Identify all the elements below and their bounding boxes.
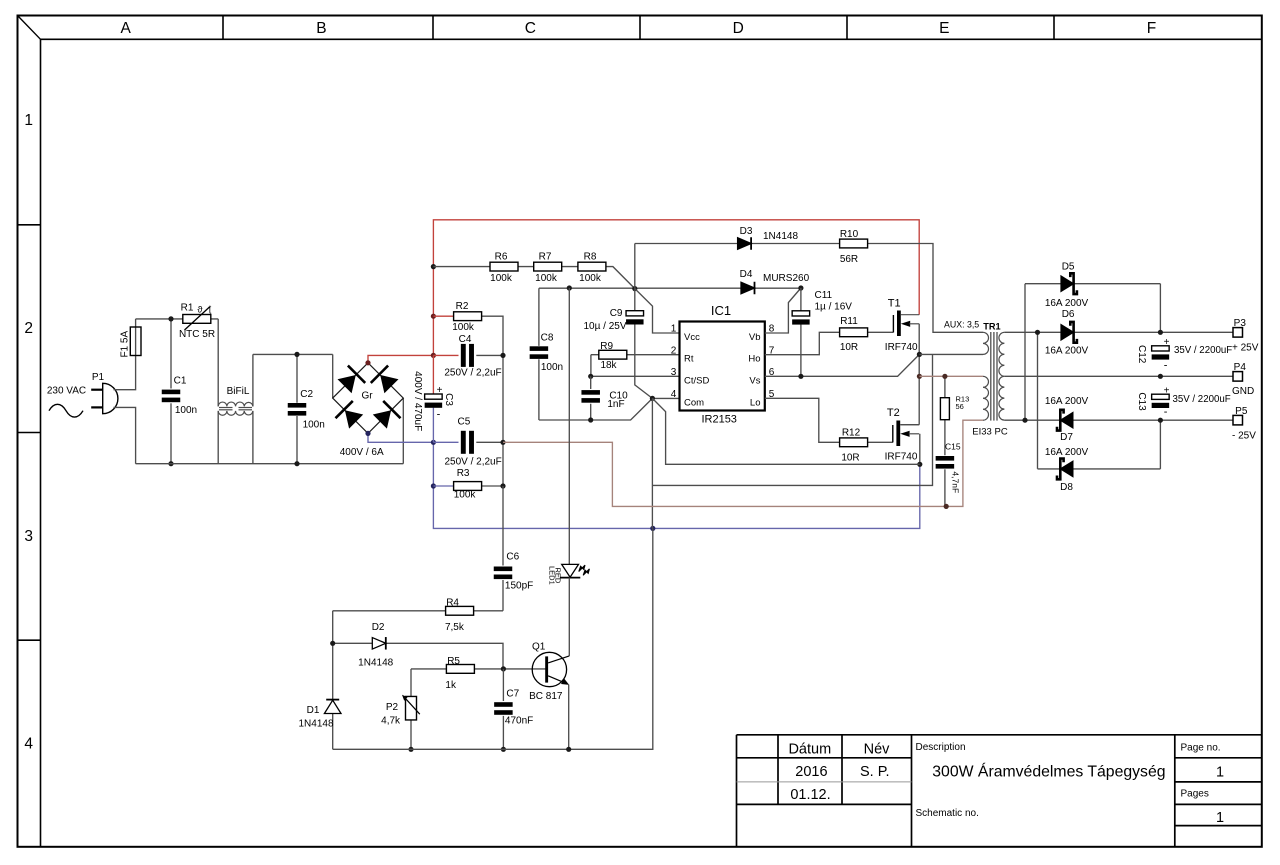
wire LED cathode to Q1 collector [568, 578, 570, 656]
junction D4 cathode / C11 [798, 285, 803, 290]
title block table [737, 735, 1262, 847]
svg-text:100k: 100k [535, 273, 558, 284]
svg-text:1N4148: 1N4148 [298, 718, 333, 729]
capacitor C3 [425, 394, 443, 408]
transformer TR1 secondary winding [999, 332, 1004, 420]
wire pin4 Com stub [652, 397, 679, 399]
capacitor C11 [792, 311, 810, 325]
wire D8 right vertical [1159, 420, 1161, 469]
frame column divider x=847 [846, 16, 848, 40]
svg-text:C11: C11 [815, 290, 833, 301]
svg-text:R7: R7 [539, 251, 552, 262]
capacitor C2 [288, 403, 307, 416]
capacitor C15 [936, 456, 955, 469]
wire pin7 Ho to R11 to T1 gate [765, 332, 894, 354]
diode D6 [1061, 322, 1077, 343]
wire C5 right lead [476, 441, 503, 443]
svg-text:R1: R1 [181, 302, 194, 313]
svg-text:56: 56 [956, 402, 964, 411]
svg-text:IRF740: IRF740 [885, 451, 918, 462]
transistor T2 IRF740 [893, 421, 919, 447]
connector P5 pad [1233, 415, 1243, 425]
wire pin5 Lo to R12 to T2 gate [765, 398, 893, 442]
op-amp IC1 box [680, 322, 765, 411]
inductor BiFiL windings [218, 402, 253, 415]
svg-text:R3: R3 [457, 468, 470, 479]
resistor R7 body [534, 262, 562, 271]
resistor R4 body [446, 606, 474, 615]
svg-text:250V / 2,2uF: 250V / 2,2uF [444, 368, 501, 379]
svg-text:D2: D2 [372, 622, 385, 633]
svg-text:3: 3 [24, 528, 33, 545]
svg-text:R10: R10 [840, 229, 859, 240]
svg-text:1µ / 16V: 1µ / 16V [815, 302, 853, 313]
junction secondary top / D8 [1035, 330, 1040, 335]
frame column divider x=1054 [1053, 16, 1055, 40]
svg-text:BC 817: BC 817 [529, 691, 563, 702]
svg-text:C6: C6 [506, 552, 519, 563]
junction C4 right [500, 353, 505, 358]
svg-text:P4: P4 [1234, 362, 1247, 373]
wire R5 line to Q1 base [411, 668, 546, 670]
svg-text:16A 200V: 16A 200V [1045, 298, 1089, 309]
wire C7 leads [502, 669, 504, 749]
junction R3 right [500, 483, 505, 488]
frame corner diagonal [18, 16, 41, 40]
capacitor C4 [461, 344, 474, 367]
transformer TR1 aux winding [983, 332, 989, 354]
frame inner left line [40, 39, 42, 847]
wire R1 right lead down to BiFiL [217, 319, 219, 407]
junction secondary bottom / D5 [1022, 418, 1027, 423]
svg-text:AUX: 3,5: AUX: 3,5 [944, 320, 979, 330]
resistor R6 body [490, 262, 518, 271]
wire secondary center tap GND to P4 [1004, 375, 1233, 377]
wire bottom AC rail [136, 463, 404, 465]
svg-text:S. P.: S. P. [860, 764, 890, 780]
svg-text:P5: P5 [1235, 406, 1248, 417]
svg-text:+: + [1164, 337, 1170, 348]
junction D2 anode [330, 641, 335, 646]
wire plug bottom pin down to bottom rail [114, 407, 136, 463]
wire D3 anode vertical through Vcc node [634, 244, 636, 311]
svg-text:D3: D3 [740, 226, 753, 237]
wire D8 line [1038, 468, 1161, 470]
svg-text:C1: C1 [174, 375, 187, 386]
svg-text:300W Áramvédelmes Tápegység: 300W Áramvédelmes Tápegység [932, 761, 1165, 780]
svg-text:P2: P2 [386, 702, 399, 713]
svg-text:Vs: Vs [749, 375, 760, 386]
junction GND output rail [1158, 374, 1163, 379]
svg-text:1k: 1k [445, 680, 457, 691]
wire maroon primary return to C4/C5 midpoint [503, 420, 983, 506]
resistor R10 body [840, 239, 868, 248]
junction R13 top [942, 374, 947, 379]
resistor R9 body [599, 350, 627, 359]
diode D7 [1057, 410, 1073, 431]
junction C2 bottom [294, 461, 299, 466]
wire P2 top lead [410, 669, 412, 696]
junction C5 right [500, 440, 505, 445]
svg-text:Com: Com [684, 397, 704, 408]
wire bridge left vertex up [332, 354, 334, 398]
svg-text:C8: C8 [541, 332, 554, 343]
svg-text:2016: 2016 [795, 764, 827, 780]
svg-text:4: 4 [24, 736, 33, 753]
junction C1 bottom [168, 461, 173, 466]
wire C10 leads [590, 376, 592, 420]
junction T1 source / aux / Vs [917, 352, 922, 357]
resistor R5 body [446, 665, 474, 674]
transistor Q1 BC817 [532, 652, 569, 686]
wire C5 left lead (blue) [433, 441, 458, 443]
resistor R2 body [454, 312, 482, 321]
wire P2 bottom lead [410, 720, 412, 749]
junction C10 bottom [588, 417, 593, 422]
junction C2 top [294, 352, 299, 357]
svg-text:7,5k: 7,5k [445, 622, 465, 633]
svg-text:Pages: Pages [1181, 788, 1209, 799]
wire D5 line [1025, 283, 1160, 285]
junction red bus at R6 rail [431, 264, 436, 269]
svg-text:Vcc: Vcc [684, 332, 700, 343]
svg-text:3: 3 [671, 367, 677, 378]
svg-text:100k: 100k [579, 273, 602, 284]
capacitor C8 [530, 346, 549, 359]
wire T1 source vertical to T2 drain [918, 324, 920, 425]
svg-text:MURS260: MURS260 [763, 273, 810, 284]
wire C1 bottom lead [170, 403, 172, 463]
svg-text:16A 200V: 16A 200V [1045, 447, 1089, 458]
svg-text:D: D [733, 20, 744, 37]
svg-text:P1: P1 [92, 372, 105, 383]
wire C15 bottom lead [944, 469, 946, 506]
AC sine symbol [49, 404, 83, 417]
wire R3 left lead (blue) [433, 485, 454, 487]
svg-text:100k: 100k [490, 273, 513, 284]
svg-text:ϑ: ϑ [197, 305, 203, 316]
svg-text:F1 5A: F1 5A [119, 331, 130, 358]
capacitor C1 [162, 390, 181, 403]
wire maroon primary top [919, 375, 983, 377]
svg-text:R6: R6 [495, 251, 508, 262]
wire C1 top lead [170, 319, 172, 389]
svg-text:- 25V: - 25V [1232, 431, 1256, 442]
svg-text:16A 200V: 16A 200V [1045, 396, 1089, 407]
capacitor C12 [1152, 346, 1170, 360]
wire pin6 Vs line [765, 354, 920, 376]
capacitor C9 [626, 311, 644, 325]
wire fuse lead through body [135, 319, 137, 356]
wire BiFiL bottom left lead [217, 411, 219, 464]
svg-text:-: - [437, 408, 441, 420]
junction bridge top (red) [365, 360, 370, 365]
svg-text:100k: 100k [454, 490, 477, 501]
transformer TR1 primary winding [983, 376, 988, 420]
capacitor C10 [581, 390, 600, 403]
svg-text:470nF: 470nF [505, 715, 533, 726]
svg-text:D5: D5 [1062, 261, 1075, 272]
junction T2 source [917, 462, 922, 467]
frame column divider x=640 [639, 16, 641, 40]
svg-text:1N4148: 1N4148 [358, 658, 393, 669]
svg-text:C7: C7 [506, 688, 519, 699]
svg-text:2: 2 [671, 345, 677, 356]
svg-text:250V / 2,2uF: 250V / 2,2uF [444, 456, 501, 467]
diode D5 [1061, 273, 1077, 294]
wire C2 vertical leads [296, 354, 298, 463]
junction R5 / C7 / base [501, 666, 506, 671]
svg-text:1: 1 [24, 112, 33, 129]
diode D8 [1057, 459, 1073, 480]
svg-text:Q1: Q1 [532, 642, 546, 653]
wire red stub bridge top [368, 355, 433, 362]
svg-text:T2: T2 [887, 407, 900, 419]
svg-text:+ 25V: + 25V [1232, 343, 1259, 354]
bridge Gr diamond outline [333, 363, 404, 434]
svg-text:35V / 2200uF: 35V / 2200uF [1174, 345, 1232, 356]
svg-text:10R: 10R [841, 452, 859, 463]
wire C6 bottom lead [502, 580, 504, 611]
wire Com to T2 source line [652, 398, 919, 464]
svg-text:C5: C5 [458, 416, 471, 427]
svg-text:C12: C12 [1136, 345, 1147, 364]
svg-text:2: 2 [24, 320, 33, 337]
svg-text:BiFiL: BiFiL [227, 386, 250, 397]
svg-text:C2: C2 [300, 389, 313, 400]
svg-text:F: F [1147, 20, 1156, 37]
svg-text:GND: GND [1232, 386, 1254, 397]
svg-text:D7: D7 [1060, 432, 1073, 443]
potentiometer P2 body [406, 696, 417, 720]
svg-text:+: + [1164, 385, 1170, 396]
svg-text:C15: C15 [945, 441, 961, 451]
bridge diode upper-left (left to top) [338, 366, 366, 394]
svg-text:C: C [525, 20, 536, 37]
svg-text:10R: 10R [840, 342, 858, 353]
capacitor C5 [461, 431, 474, 454]
fuse F1 body [130, 327, 141, 356]
junction Q1 emitter bottom [566, 747, 571, 752]
svg-text:D4: D4 [740, 269, 753, 280]
svg-text:T1: T1 [888, 297, 901, 309]
svg-text:1: 1 [1216, 765, 1224, 781]
wire D5 right vertical [1159, 284, 1161, 333]
svg-text:B: B [316, 20, 326, 37]
wire C8/C10 ground line diagonal to Com [539, 398, 653, 420]
wire top AC rail [136, 318, 219, 320]
svg-text:NTC 5R: NTC 5R [179, 329, 215, 340]
svg-text:R2: R2 [456, 301, 469, 312]
svg-text:Schematic no.: Schematic no. [916, 808, 979, 819]
svg-text:Név: Név [864, 741, 891, 757]
svg-text:Page no.: Page no. [1181, 743, 1221, 754]
svg-text:D8: D8 [1060, 482, 1073, 493]
wire D2 line [333, 643, 503, 669]
svg-text:IC1: IC1 [711, 303, 731, 318]
svg-text:1N4148: 1N4148 [763, 231, 798, 242]
diode D3 [738, 237, 752, 250]
wire bottom protection rail [333, 528, 653, 749]
svg-text:Vb: Vb [749, 332, 761, 343]
svg-text:1nF: 1nF [607, 399, 624, 410]
svg-text:Ho: Ho [748, 354, 760, 365]
svg-text:100n: 100n [303, 419, 325, 430]
wire C9 bottom to Com node [635, 324, 653, 398]
junction blue rail to protection ground [650, 526, 655, 531]
junction negative output rail [1158, 418, 1163, 423]
wire secondary bottom lead to P5 [1004, 419, 1233, 421]
junction R9/C10/pin3 [588, 374, 593, 379]
wire Com return line [652, 354, 932, 528]
svg-text:35V / 2200uF: 35V / 2200uF [1173, 394, 1231, 405]
svg-text:P3: P3 [1234, 318, 1247, 329]
wire Vcc rail C8 to D4 cathode [539, 287, 801, 289]
svg-text:Lo: Lo [750, 397, 761, 408]
wire R3 junction down to C6 [502, 486, 504, 566]
bridge diode lower-left (bottom to left) [336, 401, 364, 429]
svg-text:R9: R9 [600, 341, 613, 352]
svg-text:D6: D6 [1062, 309, 1075, 320]
frame row divider y=640.2 [18, 639, 41, 641]
svg-text:16A 200V: 16A 200V [1045, 346, 1089, 357]
wire Q1 emitter to bottom rail [568, 685, 570, 750]
BiFiL core dashed lines [219, 408, 252, 410]
transistor T1 IRF740 [893, 311, 919, 337]
svg-text:C9: C9 [610, 308, 623, 319]
wire C11 leads [800, 288, 802, 376]
resistor R1 body [183, 315, 211, 324]
svg-text:Ct/SD: Ct/SD [684, 375, 709, 386]
resistor R12 body [840, 438, 868, 447]
svg-text:R5: R5 [447, 656, 460, 667]
svg-text:E: E [939, 20, 949, 37]
wire D5 left vertical [1024, 284, 1026, 421]
svg-text:RED: RED [553, 567, 562, 583]
bridge diode lower-right (bottom to right) [373, 401, 401, 429]
svg-text:100n: 100n [175, 405, 197, 416]
svg-text:150pF: 150pF [505, 581, 533, 592]
wire R3 right lead [481, 485, 503, 487]
connector P3 pad [1233, 328, 1243, 338]
wire T2 drain lead [900, 424, 919, 426]
svg-text:Dátum: Dátum [788, 741, 831, 757]
svg-text:R8: R8 [584, 251, 597, 262]
wire R2 right lead and vertical [481, 316, 503, 486]
connector P4 pad [1233, 372, 1243, 382]
capacitor C7 [494, 702, 513, 715]
svg-text:Rt: Rt [684, 354, 694, 365]
diode D4 [741, 282, 755, 295]
diode D2 [372, 637, 386, 650]
LED1 symbol [560, 564, 590, 577]
svg-text:18k: 18k [600, 360, 617, 371]
frame row divider y=224.8 [18, 224, 41, 226]
svg-text:R12: R12 [842, 428, 861, 439]
svg-text:IR2153: IR2153 [701, 414, 736, 426]
svg-text:A: A [121, 20, 132, 37]
junction red bus at C4 [431, 353, 436, 358]
wire T2 source down to blue [919, 434, 921, 465]
wire secondary top lead to P3 [1004, 331, 1233, 333]
wire R13 leads [944, 376, 946, 455]
junction C15 bottom [944, 504, 949, 509]
wire BiFiL right leads [252, 354, 254, 463]
svg-text:4,7nF: 4,7nF [950, 471, 960, 493]
wire pin1 Vcc connection [635, 289, 680, 333]
wire C4 right lead [476, 354, 503, 356]
junction C1 top [168, 316, 173, 321]
svg-text:10µ / 25V: 10µ / 25V [583, 321, 626, 332]
svg-text:-: - [1164, 360, 1168, 372]
wire plug top pin to fuse [114, 356, 136, 390]
wire bridge right vertex down [402, 398, 404, 464]
junction P2 bottom [408, 747, 413, 752]
wire LED top vertical from Vcc rail [568, 288, 570, 564]
capacitor C13 [1152, 394, 1170, 408]
svg-text:400V / 470uF: 400V / 470uF [412, 371, 423, 431]
svg-text:1: 1 [671, 324, 677, 335]
resistor R8 body [578, 262, 606, 271]
NTC diagonal strike on R1 [185, 307, 210, 330]
wire D3-R10 line to aux top [635, 244, 983, 333]
svg-text:1: 1 [1216, 810, 1224, 826]
wire D8 left vertical [1037, 332, 1039, 469]
wire R4 line [333, 610, 503, 612]
svg-text:230 VAC: 230 VAC [47, 385, 86, 396]
connector P1 plug symbol [91, 383, 118, 413]
svg-text:400V / 6A: 400V / 6A [340, 447, 384, 458]
svg-text:Description: Description [916, 742, 966, 753]
wire R9 left lead down [590, 355, 592, 377]
resistor R11 body [840, 328, 868, 337]
junction rail to LED wire [567, 285, 572, 290]
resistor R13 body [940, 398, 949, 420]
resistor R3 body [454, 482, 482, 491]
svg-text:Gr: Gr [361, 391, 373, 402]
svg-text:4: 4 [671, 389, 677, 400]
frame inner top line [41, 38, 1262, 40]
frame column divider x=223 [222, 16, 224, 40]
junction switching node primary [917, 374, 922, 379]
junction blue bus at C5 [431, 440, 436, 445]
junction bridge bottom (blue) [365, 431, 370, 436]
P2 wiper arrow [402, 695, 420, 715]
wire aux bottom to switching node [919, 353, 983, 355]
svg-text:C3: C3 [443, 393, 454, 406]
wire C8 leads [538, 288, 540, 420]
svg-text:C4: C4 [459, 334, 472, 345]
svg-text:+: + [437, 385, 443, 396]
svg-text:4,7k: 4,7k [381, 715, 401, 726]
diode D1 (vertical, pointing up) [324, 700, 341, 714]
svg-text:IRF740: IRF740 [885, 342, 918, 353]
wire C4 left lead (red) [433, 354, 458, 356]
svg-text:100n: 100n [541, 362, 563, 373]
svg-text:01.12.: 01.12. [790, 787, 830, 803]
svg-text:TR1: TR1 [983, 321, 1000, 331]
junction red bus at R2 [431, 314, 436, 319]
wire red positive bus [433, 220, 919, 356]
svg-text:C13: C13 [1136, 392, 1147, 411]
svg-text:100k: 100k [452, 322, 475, 333]
svg-text:-: - [1164, 406, 1168, 418]
junction C7 bottom [501, 747, 506, 752]
junction blue bus at R3 [431, 483, 436, 488]
svg-text:EI33 PC: EI33 PC [972, 427, 1008, 438]
capacitor C6 [494, 567, 513, 580]
wire pin2 Rt to R9 [591, 354, 680, 356]
